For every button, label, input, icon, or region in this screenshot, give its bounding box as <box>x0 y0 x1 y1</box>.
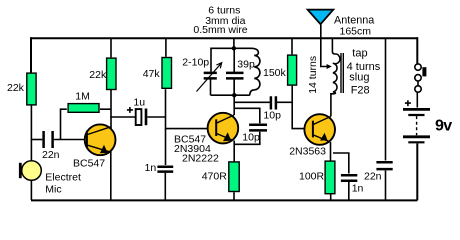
battery + sign <box>405 100 411 106</box>
svg-text:BC547: BC547 <box>73 158 105 170</box>
wire feedback to emitter <box>234 132 260 145</box>
wire Q2 feedback branch <box>234 108 260 123</box>
resistor 100R (Q3 emitter) <box>325 161 335 194</box>
wire node to Q2 base <box>166 128 209 130</box>
wire 22n to Q1 base <box>54 139 86 141</box>
svg-text:165cm: 165cm <box>340 25 372 37</box>
wire 22k top to rail <box>110 38 112 57</box>
wire 150k bottom to Q3 base <box>292 86 305 129</box>
capacitor 22n (supply bypass) <box>376 162 392 169</box>
capacitor 1u electrolytic <box>136 109 146 126</box>
wire 470R to ground <box>233 192 235 200</box>
transistor Q2 BC547/2N3904/2N2222 <box>208 113 239 144</box>
wire collector node to 1u cap <box>110 116 135 118</box>
wire Q3 emitter to 100R <box>330 142 332 162</box>
wire rail right end down to switch <box>416 37 418 64</box>
svg-text:1u: 1u <box>133 96 145 108</box>
wire rail to 22n bypass <box>385 39 387 161</box>
wire Q1 collector up to 22k <box>110 90 112 129</box>
svg-text:2N2222: 2N2222 <box>182 152 219 164</box>
capacitor 22n (mic coupling) <box>44 131 53 148</box>
svg-text:tap: tap <box>352 47 367 59</box>
battery 9v <box>403 109 430 142</box>
polarity + for 1u <box>127 107 133 113</box>
wire 47k bottom through nodes down to 1n <box>165 89 167 165</box>
wire 47k top to rail <box>165 38 167 57</box>
wire tank top from trimmer to coil <box>211 48 251 72</box>
resistor 22k (left bias) <box>27 73 36 105</box>
transistor Q1 BC547 <box>85 124 116 155</box>
wire trimmer bottom riser <box>210 80 212 96</box>
svg-text:2N3563: 2N3563 <box>289 146 326 158</box>
svg-text:1n: 1n <box>352 182 364 194</box>
svg-text:22n: 22n <box>364 171 382 183</box>
transistor Q3 2N3563 <box>304 114 335 145</box>
resistor 1M (feedback) <box>68 104 99 113</box>
switch SW1 <box>415 64 427 92</box>
wire tank riser to rail <box>233 38 235 48</box>
wire emitter node to 1n bypass <box>333 153 349 174</box>
wire Q2 collector to 10p coupling <box>234 101 270 103</box>
svg-text:22k: 22k <box>89 69 107 81</box>
wire mic bottom to ground <box>30 180 32 200</box>
svg-text:2-10p: 2-10p <box>182 57 209 69</box>
inductor L1 6 turns <box>250 48 260 95</box>
wire 1u to 47k/base node <box>147 116 166 118</box>
svg-text:Mic: Mic <box>45 184 61 196</box>
wire 100R to ground <box>330 194 332 200</box>
wire 22k bottom to mic top <box>30 106 32 162</box>
capacitor 1n (emitter bypass) <box>341 175 357 181</box>
wire mic node to 22n cap <box>31 139 43 141</box>
trimmer arrow <box>197 63 222 91</box>
svg-text:10p: 10p <box>242 132 260 144</box>
wire Q2 collector up through tank <box>233 80 235 116</box>
svg-text:470R: 470R <box>202 170 228 182</box>
svg-text:1n: 1n <box>145 162 157 174</box>
transformer core <box>341 53 343 93</box>
svg-text:22k: 22k <box>7 82 25 94</box>
svg-text:1M: 1M <box>75 91 90 103</box>
wire Q2 emitter down to 470R <box>233 141 235 162</box>
svg-text:Electret: Electret <box>45 171 81 183</box>
capacitor 2-10p trimmer <box>204 73 217 79</box>
svg-text:10p: 10p <box>263 110 281 122</box>
svg-text:9v: 9v <box>435 118 452 135</box>
wire 1n bottom to ground <box>164 173 166 200</box>
resistor 150k (Q3 bias) <box>288 55 297 85</box>
svg-text:slug: slug <box>349 71 369 83</box>
transformer T1 primary 14 turns <box>331 38 340 94</box>
resistor 22k (collector load Q1) <box>107 58 116 89</box>
wire 1n to ground <box>348 182 350 200</box>
capacitor 10p (coupling) <box>271 96 276 109</box>
tap arrowhead <box>327 64 332 69</box>
electret mic diaphragm bar <box>19 163 22 178</box>
wire top supply rail <box>31 37 417 39</box>
electret mic <box>22 161 42 181</box>
wire 39p top lead <box>233 48 235 72</box>
wire 1M left lead down to base line <box>61 109 67 139</box>
wire 39p bottom lead <box>233 79 235 95</box>
resistor 470R (Q2 emitter) <box>229 162 239 192</box>
wire switch to battery <box>416 92 418 107</box>
svg-text:47k: 47k <box>143 68 161 80</box>
wire battery to ground rail <box>416 143 418 200</box>
resistor 47k (Q2 bias) <box>162 58 172 89</box>
node tank top junction <box>232 46 236 50</box>
wire 150k top to rail <box>291 38 293 54</box>
wire bottom ground rail <box>31 199 417 201</box>
svg-text:0.5mm wire: 0.5mm wire <box>193 24 247 36</box>
wire Q3 collector to transformer <box>331 94 332 117</box>
wire antenna stem to tap <box>321 24 328 67</box>
wire 10p to 150k node <box>277 101 292 103</box>
svg-text:39p: 39p <box>237 59 255 71</box>
capacitor 1n (Q2 base to ground) <box>157 167 173 172</box>
wire Q1 emitter down to ground <box>110 152 112 201</box>
svg-text:14 turns: 14 turns <box>307 56 319 94</box>
wire tank bottom <box>211 94 250 96</box>
capacitor 39p <box>226 73 244 79</box>
wire 22n to ground <box>385 171 387 201</box>
node tank bottom junction <box>232 93 236 97</box>
svg-text:F28: F28 <box>351 84 370 96</box>
antenna <box>308 10 334 25</box>
wire 1M right lead to collector line <box>100 108 111 110</box>
svg-text:22n: 22n <box>42 149 60 161</box>
svg-text:150k: 150k <box>263 67 287 79</box>
capacitor 10p (feedback) <box>249 125 267 131</box>
svg-text:100R: 100R <box>299 170 325 182</box>
wire left rail drop to 22k <box>30 37 32 73</box>
